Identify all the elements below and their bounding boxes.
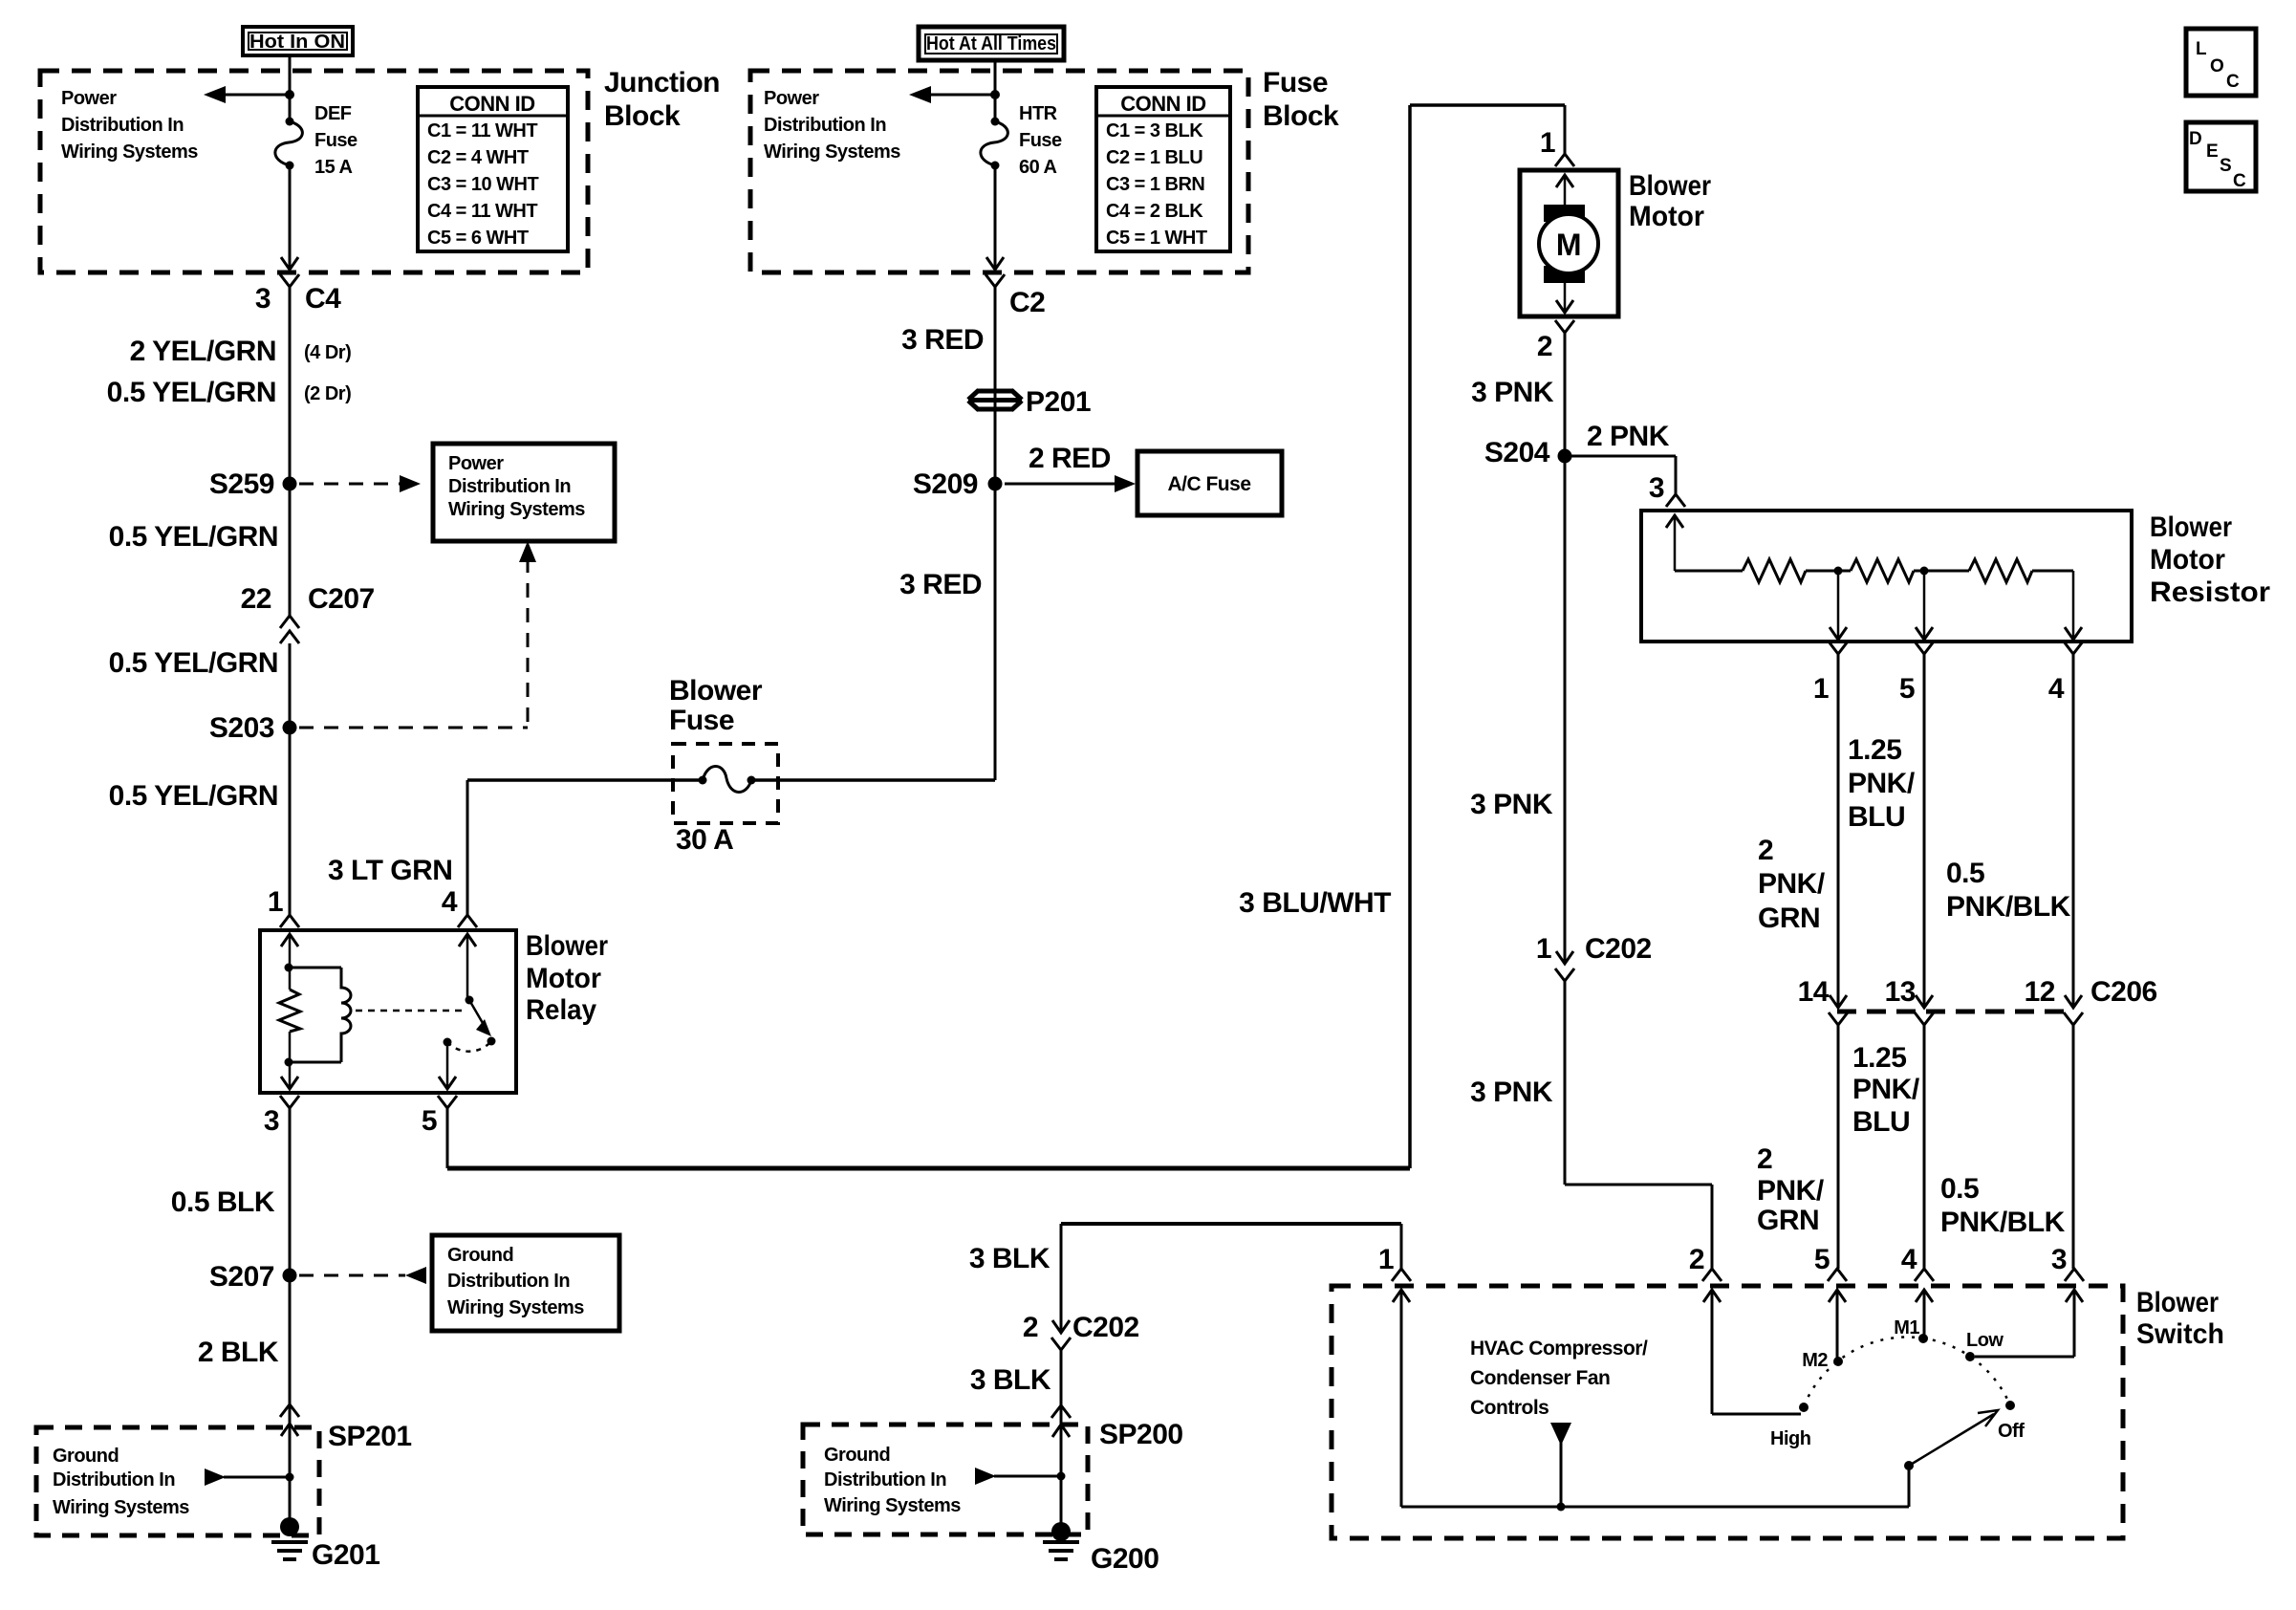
arrowhead into A/C Fuse box: [1115, 475, 1136, 492]
svg-text:Power: Power: [764, 88, 819, 109]
node in G200 box: [1057, 1472, 1066, 1481]
svg-text:CONN ID: CONN ID: [449, 92, 534, 116]
wire: arrow branch to Power Distribution: [226, 94, 290, 97]
svg-text:Blower: Blower: [1629, 170, 1711, 202]
svg-text:1: 1: [1540, 127, 1555, 159]
svg-text:Controls: Controls: [1470, 1397, 1549, 1419]
relay coil: [290, 967, 341, 969]
svg-text:1: 1: [1378, 1244, 1394, 1275]
Ground Distribution dashed box (G201): [36, 1427, 319, 1535]
wire: 0.5 YEL/GRN to relay pin 1: [289, 643, 292, 915]
svg-text:Switch: Switch: [2136, 1318, 2224, 1350]
svg-text:2: 2: [1537, 331, 1552, 362]
svg-text:GRN: GRN: [1757, 1205, 1819, 1236]
arrowhead in G201 box: [205, 1469, 226, 1486]
svg-text:22: 22: [241, 583, 271, 615]
splice S207: [283, 1269, 297, 1283]
svg-text:C202: C202: [1072, 1312, 1139, 1343]
resistor pin 1 chevron: [1829, 642, 1848, 654]
wire: switch pin 3 to Low: [2073, 1290, 2076, 1357]
svg-text:30 A: 30 A: [676, 824, 733, 856]
wire: switch pin 5 to M2: [1836, 1290, 1839, 1361]
svg-text:Motor: Motor: [2150, 544, 2225, 576]
resistor pin 3 chevron: [1666, 494, 1685, 507]
svg-text:C4: C4: [305, 283, 341, 315]
svg-text:Block: Block: [604, 100, 681, 132]
wire: 3 BLU/WHT horizontal run: [447, 1166, 1410, 1171]
wire: Hot At All Times down to HTR fuse: [994, 60, 997, 121]
svg-text:Condenser Fan: Condenser Fan: [1470, 1367, 1610, 1389]
splice pack SP200 symbols: [1051, 1405, 1071, 1418]
svg-text:C: C: [2233, 171, 2246, 191]
relay contact arrowhead: [476, 1019, 491, 1036]
connector C202 pin 1 arrowhead: [1556, 951, 1573, 964]
svg-text:C1 = 3 BLK: C1 = 3 BLK: [1106, 120, 1203, 141]
svg-text:C: C: [2226, 72, 2240, 92]
box: A/C Fuse: [1137, 451, 1282, 515]
svg-text:0.5 YEL/GRN: 0.5 YEL/GRN: [109, 521, 278, 553]
svg-text:S: S: [2220, 156, 2231, 176]
relay pin 4 chevron: [458, 915, 477, 927]
svg-text:C3 = 10 WHT: C3 = 10 WHT: [427, 174, 538, 195]
switch pin 1 chevron: [1392, 1269, 1411, 1281]
resistor element 2: [1851, 559, 1914, 582]
relay switch contact (pin4-pin5): [459, 934, 476, 946]
svg-text:Fuse: Fuse: [1263, 67, 1328, 98]
wire: 1.25 PNK/BLU resistor pin1 to C206 pin14: [1837, 654, 1840, 1008]
svg-text:HTR: HTR: [1019, 103, 1058, 124]
box: Blower Motor: [1520, 170, 1618, 316]
svg-text:P201: P201: [1026, 386, 1091, 418]
banner: Hot At All Times: [919, 27, 1064, 60]
svg-text:Blower: Blower: [2136, 1287, 2219, 1318]
svg-text:Power: Power: [61, 88, 117, 109]
relay actuation dashed line: [356, 1010, 465, 1012]
box: Ground Distribution In Wiring Systems (S207): [432, 1235, 619, 1331]
svg-text:C5 = 6 WHT: C5 = 6 WHT: [427, 228, 529, 249]
node: HVAC tap on common run: [1557, 1503, 1566, 1512]
svg-text:PNK/BLK: PNK/BLK: [1946, 891, 2071, 923]
svg-text:2: 2: [1757, 1143, 1772, 1175]
motor pin 2 chevron: [1555, 320, 1574, 333]
svg-text:DEF: DEF: [314, 103, 352, 124]
Fuse Block dashed box: [750, 71, 1248, 272]
svg-text:S204: S204: [1484, 437, 1550, 468]
svg-text:Ground: Ground: [824, 1445, 890, 1466]
svg-text:Low: Low: [1966, 1330, 2004, 1351]
wire: 2 YEL/GRN down left rail: [289, 287, 292, 616]
svg-text:M2: M2: [1802, 1350, 1828, 1371]
svg-text:3 PNK: 3 PNK: [1470, 1077, 1553, 1108]
node: resistor tap 1: [1834, 567, 1843, 576]
svg-text:4: 4: [2048, 673, 2065, 705]
connector C4 arrowhead at junction block edge: [281, 257, 298, 270]
svg-text:Hot At All Times: Hot At All Times: [926, 33, 1056, 54]
Ground Distribution dashed box (G200): [803, 1425, 1088, 1534]
svg-text:Distribution In: Distribution In: [824, 1469, 946, 1490]
svg-text:Distribution In: Distribution In: [448, 476, 571, 497]
wire: wiper to common run: [1908, 1466, 1911, 1507]
wire: 3 BLU/WHT vertical up to motor: [1408, 105, 1412, 1168]
svg-text:C3 = 1 BRN: C3 = 1 BRN: [1106, 174, 1204, 195]
svg-text:5: 5: [422, 1105, 437, 1137]
svg-text:Motor: Motor: [1629, 201, 1704, 232]
Blower Switch dashed box: [1332, 1286, 2123, 1538]
svg-text:1: 1: [1813, 673, 1829, 705]
DESC box: [2186, 122, 2256, 191]
contact M1: [1918, 1334, 1928, 1343]
wire: relay pin 5 down: [446, 1108, 449, 1168]
svg-text:Wiring Systems: Wiring Systems: [448, 499, 585, 520]
wire: top loop to blower motor pin 1: [1410, 103, 1565, 107]
svg-text:M1: M1: [1894, 1317, 1919, 1338]
connector C4 chevron: [280, 274, 299, 287]
svg-text:2 YEL/GRN: 2 YEL/GRN: [130, 336, 276, 367]
svg-text:Wiring Systems: Wiring Systems: [53, 1497, 189, 1518]
node: junction at power-dist arrow (fuse block): [990, 90, 1000, 99]
svg-text:3: 3: [255, 283, 271, 315]
wire: 3 BLK from switch pin 1: [1061, 1222, 1401, 1226]
contact High: [1799, 1403, 1809, 1412]
contact M2: [1833, 1357, 1843, 1366]
svg-text:S209: S209: [913, 468, 978, 500]
svg-text:C4 = 11 WHT: C4 = 11 WHT: [427, 201, 537, 222]
svg-text:Blower: Blower: [2150, 511, 2232, 543]
arrowhead in G200 box: [975, 1468, 996, 1485]
wire: 2 PNK to resistor pin 3: [1565, 455, 1676, 458]
svg-text:12: 12: [2025, 976, 2055, 1008]
resistor element 1: [1743, 559, 1806, 582]
fuse: Blower Fuse 30 A: [699, 776, 707, 785]
relay pin 5 chevron: [438, 1096, 457, 1108]
svg-text:C206: C206: [2090, 976, 2157, 1008]
contact Low: [1965, 1352, 1975, 1361]
svg-text:2 BLK: 2 BLK: [198, 1337, 279, 1368]
svg-text:L: L: [2196, 39, 2207, 59]
svg-text:1.25: 1.25: [1852, 1042, 1906, 1074]
svg-text:Distribution In: Distribution In: [764, 115, 886, 136]
svg-text:PNK/: PNK/: [1757, 1175, 1825, 1207]
svg-text:PNK/: PNK/: [1758, 868, 1826, 900]
connector C207 inline chevrons: [280, 616, 299, 628]
fuse: HTR Fuse 60 A: [991, 118, 1000, 126]
svg-text:1: 1: [268, 886, 283, 918]
resistor element 3: [1969, 559, 2032, 582]
svg-text:3 BLK: 3 BLK: [970, 1364, 1051, 1396]
svg-text:Junction: Junction: [604, 67, 720, 98]
svg-text:C2: C2: [1009, 287, 1045, 318]
svg-text:PNK/BLK: PNK/BLK: [1940, 1207, 2066, 1238]
wire: blower fuse to relay pin 4 branch: [467, 778, 703, 782]
svg-text:Resistor: Resistor: [2150, 577, 2270, 608]
C206 pin 13 arrowhead: [1916, 995, 1933, 1008]
resistor pin 5 chevron: [1915, 642, 1934, 654]
svg-text:BLU: BLU: [1852, 1106, 1910, 1138]
switch wiper lever: [1904, 1461, 1914, 1470]
svg-text:SP201: SP201: [328, 1421, 412, 1452]
dashed line S207 to Ground Distribution: [299, 1274, 405, 1277]
dashed line S203 up to Power Distribution box: [527, 558, 530, 728]
svg-text:SP200: SP200: [1099, 1419, 1183, 1450]
svg-text:2: 2: [1758, 835, 1773, 866]
svg-text:Distribution In: Distribution In: [61, 115, 184, 136]
svg-text:3 RED: 3 RED: [899, 569, 982, 600]
svg-text:S203: S203: [209, 712, 274, 744]
svg-text:0.5: 0.5: [1940, 1173, 1979, 1205]
svg-text:Blower: Blower: [669, 675, 763, 707]
ground symbol G200: [1043, 1540, 1079, 1544]
dashed arrow S259 to Power Distribution box: [299, 483, 401, 486]
wiper arm: [1909, 1414, 1994, 1466]
svg-text:Motor: Motor: [526, 963, 601, 994]
arrowhead left to Power Distribution: [204, 86, 226, 103]
svg-text:Fuse: Fuse: [669, 705, 734, 736]
Blower Fuse dashed box: [673, 744, 778, 823]
wire: 1.25 PNK/BLU C206 to switch pin 5: [1837, 1025, 1840, 1269]
wire: down to motor pin 1: [1564, 105, 1567, 154]
svg-text:(4 Dr): (4 Dr): [304, 342, 351, 363]
svg-text:PNK/: PNK/: [1848, 768, 1916, 799]
svg-text:0.5 YEL/GRN: 0.5 YEL/GRN: [109, 780, 278, 812]
wire: 3 PNK motor pin 2 down: [1564, 333, 1567, 964]
switch pin 3 chevron: [2065, 1269, 2084, 1281]
svg-text:O: O: [2210, 56, 2223, 76]
resistor internals: [1666, 515, 1683, 528]
svg-text:Wiring Systems: Wiring Systems: [447, 1297, 584, 1318]
box: Blower Motor Resistor: [1641, 511, 2132, 642]
wire: 0.5 PNK/BLK C206 to switch pin 4: [1923, 1025, 1926, 1269]
svg-text:Wiring Systems: Wiring Systems: [764, 141, 900, 163]
svg-text:2 RED: 2 RED: [1029, 443, 1111, 474]
grommet P201: [968, 390, 1022, 410]
svg-text:Blower: Blower: [526, 930, 608, 962]
wire: 3 RED down to blower fuse: [994, 287, 997, 780]
svg-text:CONN ID: CONN ID: [1120, 92, 1205, 116]
box: Power Distribution In Wiring Systems: [433, 444, 615, 541]
relay moving contact arm: [469, 1000, 487, 1030]
switch pin 4 chevron: [1915, 1269, 1934, 1281]
connector C206 dashed boundary: [1837, 1010, 2074, 1014]
svg-text:A/C Fuse: A/C Fuse: [1167, 473, 1250, 495]
switch pin 2 chevron: [1702, 1269, 1722, 1281]
svg-text:2 PNK: 2 PNK: [1587, 421, 1670, 452]
wire: resistor pin4 to C206 pin12: [2072, 654, 2075, 1008]
svg-text:C4 = 2 BLK: C4 = 2 BLK: [1106, 201, 1203, 222]
svg-text:3 BLK: 3 BLK: [969, 1243, 1051, 1274]
svg-text:High: High: [1770, 1428, 1810, 1449]
switch pin 4 arrow into box: [1916, 1290, 1933, 1302]
svg-text:S259: S259: [209, 468, 274, 500]
svg-text:E: E: [2206, 141, 2218, 162]
svg-text:0.5: 0.5: [1946, 858, 1984, 889]
box: Blower Motor Relay: [260, 930, 516, 1093]
svg-text:C1 = 11 WHT: C1 = 11 WHT: [427, 120, 537, 141]
dashed line S203 right: [299, 727, 528, 729]
svg-text:60 A: 60 A: [1019, 157, 1057, 178]
Junction Block dashed box: [40, 71, 588, 272]
svg-text:Relay: Relay: [526, 994, 596, 1026]
LOC box: [2186, 29, 2256, 96]
rotary contact arc: [1804, 1337, 2010, 1406]
splice S259: [283, 477, 297, 491]
svg-text:4: 4: [442, 886, 458, 918]
svg-text:15 A: 15 A: [314, 157, 353, 178]
connector C202 pin 2 arrowhead: [1052, 1320, 1070, 1333]
svg-text:Ground: Ground: [447, 1245, 513, 1266]
svg-text:S207: S207: [209, 1261, 274, 1293]
svg-text:0.5 YEL/GRN: 0.5 YEL/GRN: [109, 647, 278, 679]
svg-text:3 PNK: 3 PNK: [1471, 377, 1554, 408]
svg-text:C2 = 1 BLU: C2 = 1 BLU: [1106, 147, 1202, 168]
node: junction at power-dist arrow: [285, 90, 294, 99]
svg-text:C202: C202: [1585, 933, 1652, 965]
wire: switch pin 4 to M1: [1923, 1290, 1926, 1338]
svg-text:Wiring Systems: Wiring Systems: [824, 1495, 961, 1516]
splice S203: [283, 721, 297, 735]
wire: switch pin 1 to common: [1400, 1290, 1403, 1507]
C206 pin 14 arrowhead: [1830, 995, 1847, 1008]
svg-text:Fuse: Fuse: [1019, 130, 1062, 151]
motor symbol: [1544, 205, 1585, 222]
switch pin 5 arrow into box: [1829, 1290, 1846, 1302]
svg-text:Block: Block: [1263, 100, 1339, 132]
node: resistor tap 2: [1920, 567, 1929, 576]
table: CONN ID (junction block): [418, 87, 568, 251]
svg-text:13: 13: [1885, 976, 1916, 1008]
arrowhead left at Ground Distribution box: [405, 1267, 426, 1284]
wire: 3 BLK down to C202 pin 2: [1060, 1224, 1063, 1333]
node in G201 box: [286, 1473, 294, 1482]
connector C2 chevron: [986, 274, 1005, 287]
splice S209: [988, 477, 1003, 491]
svg-text:4: 4: [1901, 1244, 1917, 1275]
svg-text:HVAC Compressor/: HVAC Compressor/: [1470, 1338, 1648, 1360]
svg-text:C5 = 1 WHT: C5 = 1 WHT: [1106, 228, 1207, 249]
svg-text:GRN: GRN: [1758, 903, 1820, 934]
banner: Hot In ON: [243, 27, 353, 55]
switch pin 3 arrow into box: [2066, 1290, 2083, 1302]
svg-text:Ground: Ground: [53, 1446, 119, 1467]
splice pack SP201 symbols: [280, 1404, 299, 1417]
switch pin 1 arrow into box: [1393, 1290, 1410, 1302]
svg-text:Hot In ON: Hot In ON: [249, 32, 345, 53]
wire: 3 LT GRN blower fuse to relay pin 4: [466, 780, 469, 915]
relay coil branch (pin1-pin3): [281, 934, 298, 946]
wire: Hot In ON down to DEF fuse: [289, 55, 292, 121]
contact Off: [2005, 1401, 2015, 1410]
svg-text:2: 2: [1023, 1312, 1038, 1343]
svg-text:1: 1: [1536, 933, 1551, 965]
svg-text:C2 = 4 WHT: C2 = 4 WHT: [427, 147, 529, 168]
C206 pin 12 arrowhead: [2065, 995, 2082, 1008]
svg-text:3: 3: [2051, 1244, 2067, 1275]
splice S204: [1558, 449, 1572, 464]
wire: blower fuse to 3 RED rail: [751, 778, 995, 782]
svg-text:D: D: [2189, 129, 2201, 149]
svg-text:Off: Off: [1998, 1421, 2025, 1442]
switch pin 2 arrow into box: [1703, 1290, 1721, 1302]
svg-text:(2 Dr): (2 Dr): [304, 383, 351, 404]
svg-text:G201: G201: [312, 1539, 379, 1571]
svg-text:Wiring Systems: Wiring Systems: [61, 141, 198, 163]
svg-text:3 BLU/WHT: 3 BLU/WHT: [1239, 887, 1391, 919]
svg-text:3: 3: [264, 1105, 279, 1137]
relay resistor zigzag: [279, 990, 300, 1032]
svg-text:BLU: BLU: [1848, 801, 1905, 833]
svg-text:1.25: 1.25: [1848, 734, 1901, 766]
svg-text:PNK/: PNK/: [1852, 1074, 1920, 1105]
resistor pin 4 chevron: [2064, 642, 2083, 654]
svg-text:Distribution In: Distribution In: [53, 1469, 175, 1490]
wire: S209 to A/C Fuse: [1005, 483, 1118, 486]
motor pin 1 chevron: [1555, 154, 1574, 166]
svg-text:C207: C207: [308, 583, 375, 615]
switch pin 5 chevron: [1828, 1269, 1847, 1281]
wire: 3 PNK C202 to blower switch pin 2: [1564, 981, 1567, 1185]
wire: switch pin 2 to High: [1711, 1290, 1714, 1414]
svg-text:14: 14: [1798, 976, 1830, 1008]
connector C2 arrowhead: [986, 257, 1004, 270]
wire: 0.5 PNK/BLK resistor pin5 to C206 pin13: [1923, 654, 1926, 1008]
svg-text:3 PNK: 3 PNK: [1470, 789, 1553, 820]
svg-text:Fuse: Fuse: [314, 130, 357, 151]
svg-text:G200: G200: [1091, 1543, 1159, 1575]
svg-text:3 LT GRN: 3 LT GRN: [328, 855, 452, 886]
wire: C206 pin12 to switch pin 3: [2072, 1025, 2075, 1269]
wire: 3 BLK to SP200: [1060, 1350, 1063, 1405]
svg-text:5: 5: [1899, 673, 1915, 705]
svg-text:3 RED: 3 RED: [901, 324, 984, 356]
relay pin 1 chevron: [280, 915, 299, 927]
table: CONN ID (fuse block): [1096, 87, 1230, 251]
wire: 0.5 BLK relay pin3 to ground: [289, 1108, 292, 1527]
ground G200 dot: [1051, 1522, 1071, 1541]
svg-text:5: 5: [1814, 1244, 1830, 1275]
relay pin 3 chevron: [280, 1096, 299, 1108]
svg-text:2: 2: [1689, 1244, 1704, 1275]
svg-text:M: M: [1556, 228, 1581, 262]
fuse: DEF Fuse 15 A: [286, 118, 294, 126]
HVAC pointer triangle: [1550, 1423, 1571, 1446]
arrowhead up into Power Distribution box: [519, 541, 536, 562]
ground symbol G201: [271, 1540, 308, 1544]
wire: branch in G201 box: [224, 1476, 290, 1479]
wire: DEF fuse to C4: [289, 165, 292, 270]
arrowhead left (fuse block): [909, 86, 931, 103]
svg-text:Distribution In: Distribution In: [447, 1271, 570, 1292]
svg-text:Power: Power: [448, 453, 504, 474]
ground G201 dot: [280, 1517, 299, 1536]
wire: switch common bottom run: [1401, 1506, 1909, 1509]
svg-text:0.5 YEL/GRN: 0.5 YEL/GRN: [107, 377, 276, 408]
svg-text:3: 3: [1649, 472, 1664, 504]
svg-text:0.5 BLK: 0.5 BLK: [171, 1186, 275, 1218]
